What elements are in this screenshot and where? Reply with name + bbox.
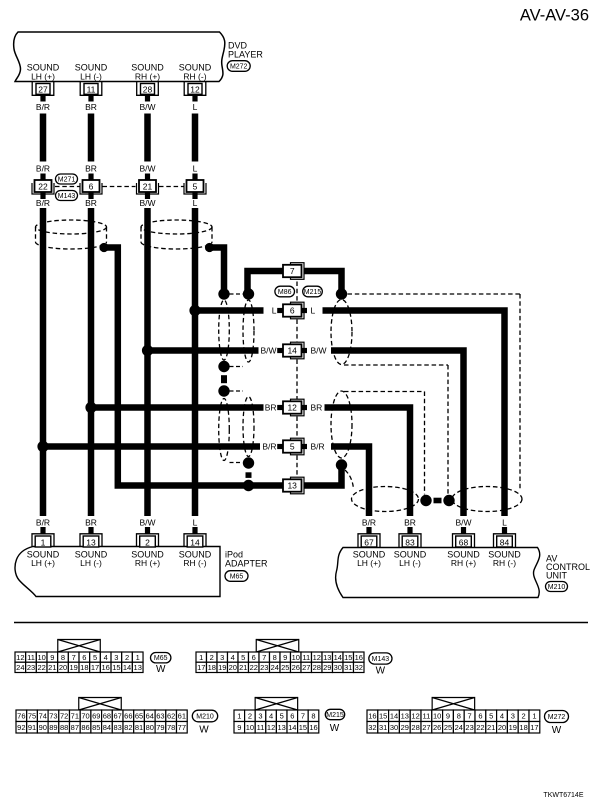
svg-text:L: L — [193, 164, 198, 174]
svg-text:W: W — [330, 723, 340, 734]
svg-text:27: 27 — [302, 663, 310, 672]
svg-text:7: 7 — [72, 653, 76, 662]
svg-text:16: 16 — [368, 712, 376, 721]
svg-text:10: 10 — [433, 712, 441, 721]
svg-text:TKWT6714E: TKWT6714E — [543, 792, 583, 799]
svg-text:5: 5 — [290, 442, 295, 452]
svg-text:B/W: B/W — [139, 517, 155, 527]
svg-text:77: 77 — [178, 723, 186, 732]
svg-text:15: 15 — [299, 723, 307, 732]
svg-text:PLAYER: PLAYER — [228, 50, 263, 60]
svg-text:16: 16 — [309, 723, 317, 732]
svg-text:M65: M65 — [154, 655, 168, 662]
svg-text:64: 64 — [146, 712, 154, 721]
svg-text:84: 84 — [500, 537, 510, 547]
svg-text:W: W — [376, 666, 386, 677]
svg-text:29: 29 — [323, 663, 331, 672]
svg-text:RH (+): RH (+) — [135, 558, 160, 568]
svg-text:5: 5 — [280, 712, 284, 721]
svg-text:L: L — [193, 198, 198, 208]
svg-text:BR: BR — [85, 164, 97, 174]
svg-text:14: 14 — [123, 663, 131, 672]
svg-text:M215: M215 — [326, 712, 344, 719]
svg-text:6: 6 — [290, 306, 295, 316]
svg-text:61: 61 — [178, 712, 186, 721]
svg-text:69: 69 — [92, 712, 100, 721]
svg-text:B/R: B/R — [36, 164, 50, 174]
svg-text:L: L — [272, 306, 277, 316]
svg-text:12: 12 — [190, 84, 200, 94]
svg-text:19: 19 — [509, 723, 517, 732]
svg-text:RH (-): RH (-) — [183, 558, 206, 568]
svg-text:10: 10 — [292, 653, 300, 662]
svg-text:8: 8 — [273, 653, 277, 662]
svg-text:3: 3 — [220, 653, 224, 662]
svg-text:RH (+): RH (+) — [135, 72, 160, 82]
svg-text:73: 73 — [49, 712, 57, 721]
svg-text:10: 10 — [38, 653, 46, 662]
svg-text:B/W: B/W — [139, 102, 155, 112]
svg-text:6: 6 — [89, 182, 94, 192]
svg-text:19: 19 — [218, 663, 226, 672]
svg-text:RH (-): RH (-) — [493, 558, 516, 568]
svg-text:31: 31 — [379, 723, 387, 732]
svg-text:75: 75 — [28, 712, 36, 721]
svg-text:B/R: B/R — [36, 102, 50, 112]
svg-text:B/W: B/W — [260, 346, 276, 356]
svg-text:83: 83 — [113, 723, 121, 732]
svg-text:LH (+): LH (+) — [31, 558, 55, 568]
svg-text:M210: M210 — [548, 584, 566, 591]
svg-text:70: 70 — [81, 712, 89, 721]
svg-text:67: 67 — [364, 537, 374, 547]
svg-text:2: 2 — [145, 537, 150, 547]
svg-text:91: 91 — [28, 723, 36, 732]
svg-text:74: 74 — [39, 712, 47, 721]
svg-text:22: 22 — [476, 723, 484, 732]
svg-text:84: 84 — [103, 723, 111, 732]
svg-text:7: 7 — [262, 653, 266, 662]
svg-text:1: 1 — [199, 653, 203, 662]
svg-text:5: 5 — [193, 182, 198, 192]
svg-text:71: 71 — [71, 712, 79, 721]
svg-text:14: 14 — [390, 712, 398, 721]
svg-text:B/W: B/W — [139, 198, 155, 208]
svg-text:13: 13 — [401, 712, 409, 721]
svg-text:23: 23 — [27, 663, 35, 672]
svg-text:9: 9 — [237, 723, 241, 732]
svg-text:W: W — [552, 725, 562, 736]
svg-text:L: L — [502, 517, 507, 527]
svg-text:12: 12 — [287, 403, 297, 413]
svg-text:25: 25 — [444, 723, 452, 732]
svg-text:21: 21 — [48, 663, 56, 672]
svg-text:2: 2 — [522, 712, 526, 721]
svg-text:M143: M143 — [58, 193, 76, 200]
svg-text:27: 27 — [422, 723, 430, 732]
svg-text:68: 68 — [103, 712, 111, 721]
svg-text:13: 13 — [86, 537, 96, 547]
svg-text:15: 15 — [344, 653, 352, 662]
svg-text:AV-AV-36: AV-AV-36 — [520, 7, 589, 25]
svg-text:ADAPTER: ADAPTER — [225, 559, 268, 569]
svg-text:17: 17 — [197, 663, 205, 672]
svg-text:32: 32 — [355, 663, 363, 672]
svg-text:15: 15 — [112, 663, 120, 672]
svg-text:88: 88 — [60, 723, 68, 732]
svg-text:14: 14 — [288, 723, 296, 732]
svg-text:65: 65 — [135, 712, 143, 721]
svg-text:22: 22 — [250, 663, 258, 672]
svg-text:11: 11 — [257, 723, 265, 732]
svg-text:78: 78 — [167, 723, 175, 732]
svg-text:W: W — [156, 664, 166, 675]
svg-text:1: 1 — [41, 537, 46, 547]
svg-text:L: L — [311, 306, 316, 316]
svg-text:4: 4 — [269, 712, 273, 721]
svg-text:17: 17 — [530, 723, 538, 732]
svg-text:68: 68 — [459, 537, 469, 547]
svg-text:89: 89 — [49, 723, 57, 732]
svg-text:13: 13 — [134, 663, 142, 672]
svg-text:M215: M215 — [304, 289, 322, 296]
svg-text:23: 23 — [465, 723, 473, 732]
svg-text:LH (+): LH (+) — [31, 72, 55, 82]
svg-text:7: 7 — [290, 266, 295, 276]
svg-text:7: 7 — [301, 712, 305, 721]
svg-text:8: 8 — [311, 712, 315, 721]
svg-text:30: 30 — [390, 723, 398, 732]
svg-text:20: 20 — [229, 663, 237, 672]
svg-text:81: 81 — [135, 723, 143, 732]
svg-text:24: 24 — [455, 723, 463, 732]
svg-text:3: 3 — [114, 653, 118, 662]
svg-text:RH (-): RH (-) — [183, 72, 206, 82]
svg-text:LH (+): LH (+) — [357, 558, 381, 568]
svg-text:22: 22 — [38, 182, 48, 192]
svg-text:28: 28 — [411, 723, 419, 732]
svg-text:11: 11 — [27, 653, 35, 662]
svg-text:11: 11 — [87, 84, 96, 94]
svg-text:M210: M210 — [196, 714, 214, 721]
svg-text:66: 66 — [124, 712, 132, 721]
svg-text:LH (-): LH (-) — [80, 558, 102, 568]
svg-text:13: 13 — [323, 653, 331, 662]
svg-text:B/R: B/R — [262, 442, 276, 452]
svg-text:5: 5 — [241, 653, 245, 662]
svg-text:3: 3 — [258, 712, 262, 721]
svg-text:92: 92 — [17, 723, 25, 732]
svg-text:12: 12 — [313, 653, 321, 662]
svg-text:21: 21 — [239, 663, 247, 672]
svg-text:86: 86 — [81, 723, 89, 732]
svg-text:10: 10 — [246, 723, 254, 732]
svg-text:25: 25 — [281, 663, 289, 672]
svg-text:8: 8 — [61, 653, 65, 662]
svg-text:19: 19 — [70, 663, 78, 672]
svg-text:4: 4 — [104, 653, 108, 662]
svg-text:28: 28 — [313, 663, 321, 672]
svg-text:17: 17 — [91, 663, 99, 672]
svg-text:20: 20 — [498, 723, 506, 732]
svg-text:2: 2 — [125, 653, 129, 662]
svg-text:M272: M272 — [548, 714, 566, 721]
svg-text:14: 14 — [190, 537, 200, 547]
svg-text:76: 76 — [17, 712, 25, 721]
svg-text:9: 9 — [283, 653, 287, 662]
svg-text:M271: M271 — [58, 177, 76, 184]
svg-text:6: 6 — [82, 653, 86, 662]
svg-text:L: L — [193, 517, 198, 527]
svg-text:14: 14 — [334, 653, 342, 662]
svg-text:26: 26 — [433, 723, 441, 732]
svg-text:RH (+): RH (+) — [451, 558, 476, 568]
svg-text:B/R: B/R — [36, 517, 50, 527]
svg-text:63: 63 — [156, 712, 164, 721]
svg-text:85: 85 — [92, 723, 100, 732]
svg-text:87: 87 — [71, 723, 79, 732]
svg-text:2: 2 — [210, 653, 214, 662]
svg-text:21: 21 — [143, 182, 153, 192]
svg-text:13: 13 — [278, 723, 286, 732]
svg-text:12: 12 — [16, 653, 24, 662]
svg-text:79: 79 — [156, 723, 164, 732]
svg-text:B/W: B/W — [311, 346, 327, 356]
svg-text:BR: BR — [85, 198, 97, 208]
svg-text:31: 31 — [344, 663, 352, 672]
svg-text:12: 12 — [411, 712, 419, 721]
svg-text:83: 83 — [405, 537, 415, 547]
svg-text:72: 72 — [60, 712, 68, 721]
svg-text:80: 80 — [146, 723, 154, 732]
svg-text:5: 5 — [489, 712, 493, 721]
svg-text:28: 28 — [143, 84, 153, 94]
svg-text:16: 16 — [102, 663, 110, 672]
svg-text:UNIT: UNIT — [546, 571, 567, 581]
svg-text:67: 67 — [113, 712, 121, 721]
svg-text:LH (-): LH (-) — [399, 558, 421, 568]
svg-text:M272: M272 — [230, 64, 248, 71]
svg-text:24: 24 — [16, 663, 24, 672]
svg-text:12: 12 — [267, 723, 275, 732]
svg-text:22: 22 — [38, 663, 46, 672]
svg-text:BR: BR — [85, 517, 97, 527]
svg-text:3: 3 — [511, 712, 515, 721]
svg-text:5: 5 — [93, 653, 97, 662]
svg-text:9: 9 — [446, 712, 450, 721]
svg-text:62: 62 — [167, 712, 175, 721]
svg-text:29: 29 — [401, 723, 409, 732]
svg-text:BR: BR — [311, 403, 323, 413]
svg-text:24: 24 — [271, 663, 279, 672]
svg-text:27: 27 — [38, 84, 48, 94]
svg-text:18: 18 — [208, 663, 216, 672]
svg-text:9: 9 — [50, 653, 54, 662]
svg-text:18: 18 — [80, 663, 88, 672]
svg-text:M65: M65 — [230, 574, 244, 581]
svg-text:W: W — [199, 725, 209, 736]
svg-text:6: 6 — [252, 653, 256, 662]
svg-text:L: L — [193, 102, 198, 112]
svg-text:M86: M86 — [278, 289, 292, 296]
svg-text:8: 8 — [457, 712, 461, 721]
svg-text:B/W: B/W — [455, 517, 471, 527]
svg-text:2: 2 — [248, 712, 252, 721]
svg-text:6: 6 — [290, 712, 294, 721]
svg-text:6: 6 — [478, 712, 482, 721]
svg-text:B/W: B/W — [139, 164, 155, 174]
svg-text:1: 1 — [532, 712, 536, 721]
svg-text:LH (-): LH (-) — [80, 72, 102, 82]
svg-text:4: 4 — [500, 712, 504, 721]
svg-text:BR: BR — [265, 403, 277, 413]
svg-text:18: 18 — [519, 723, 527, 732]
svg-text:23: 23 — [260, 663, 268, 672]
svg-text:14: 14 — [287, 346, 297, 356]
svg-text:16: 16 — [355, 653, 363, 662]
svg-text:BR: BR — [404, 517, 416, 527]
svg-text:26: 26 — [292, 663, 300, 672]
svg-text:90: 90 — [39, 723, 47, 732]
svg-text:M143: M143 — [372, 656, 390, 663]
svg-text:30: 30 — [334, 663, 342, 672]
svg-text:BR: BR — [85, 102, 97, 112]
svg-text:4: 4 — [231, 653, 235, 662]
svg-text:21: 21 — [487, 723, 495, 732]
svg-text:13: 13 — [287, 481, 297, 491]
svg-text:82: 82 — [124, 723, 132, 732]
svg-text:1: 1 — [136, 653, 140, 662]
svg-text:32: 32 — [368, 723, 376, 732]
svg-text:11: 11 — [302, 653, 310, 662]
svg-text:20: 20 — [59, 663, 67, 672]
svg-text:B/R: B/R — [311, 442, 325, 452]
svg-text:1: 1 — [237, 712, 241, 721]
svg-text:15: 15 — [379, 712, 387, 721]
svg-text:11: 11 — [423, 712, 431, 721]
svg-text:B/R: B/R — [362, 517, 376, 527]
svg-text:B/R: B/R — [36, 198, 50, 208]
svg-text:7: 7 — [468, 712, 472, 721]
